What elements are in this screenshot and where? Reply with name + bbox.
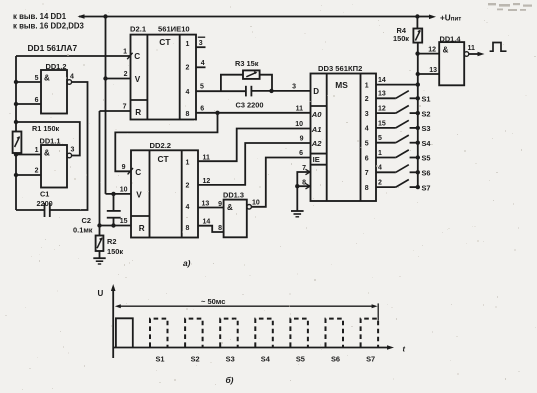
wire to switch S3 xyxy=(376,127,396,129)
gate DD1.2 xyxy=(41,70,67,114)
svg-text:V: V xyxy=(136,190,142,199)
svg-text:4: 4 xyxy=(70,74,74,81)
svg-text:14: 14 xyxy=(203,219,211,226)
svg-text:6: 6 xyxy=(200,105,204,112)
svg-text:6: 6 xyxy=(299,150,303,157)
output pulse symbol xyxy=(490,43,507,52)
svg-text:S3: S3 xyxy=(226,355,235,364)
wire pin12 xyxy=(418,53,440,55)
svg-text:2200: 2200 xyxy=(37,199,53,208)
svg-text:11: 11 xyxy=(296,105,304,112)
node S2 bus xyxy=(416,111,420,115)
node pin2 tap xyxy=(14,173,18,177)
switch S4 blade xyxy=(396,135,409,143)
svg-text:+Uпит: +Uпит xyxy=(440,13,461,22)
node R4 pin12 junction xyxy=(415,51,419,55)
counter DD2.1 xyxy=(131,35,197,120)
svg-text:8: 8 xyxy=(186,225,190,232)
counter DD2.2 xyxy=(131,150,198,237)
svg-text:R: R xyxy=(135,108,141,117)
svg-text:3: 3 xyxy=(199,40,203,47)
resistor R3 xyxy=(243,70,260,79)
wire to switch S7 xyxy=(376,186,396,188)
svg-text:S1: S1 xyxy=(422,95,431,104)
wire common bus xyxy=(417,54,419,188)
C input slash DD2.2 xyxy=(128,168,133,174)
svg-text:11: 11 xyxy=(203,154,211,161)
svg-text:&: & xyxy=(443,46,449,55)
wire C1 left xyxy=(16,209,44,211)
svg-text:A2: A2 xyxy=(311,139,322,148)
svg-text:150к: 150к xyxy=(107,247,123,256)
svg-text:S5: S5 xyxy=(296,355,305,364)
pulse S5 dashed xyxy=(290,319,308,347)
svg-text:11: 11 xyxy=(468,45,476,52)
wire to +Upit arrow xyxy=(417,16,429,18)
pulse S4 dashed xyxy=(255,319,272,347)
switch S7 blade xyxy=(396,180,409,188)
wire +U top rail xyxy=(79,16,417,18)
svg-text:1: 1 xyxy=(35,147,39,154)
node S3 bus xyxy=(416,126,420,130)
wire node-X rail xyxy=(15,153,17,210)
wire pin8 gnd xyxy=(297,185,310,187)
wire out1 to A1 xyxy=(198,129,311,162)
svg-text:2: 2 xyxy=(378,180,382,187)
svg-text:13: 13 xyxy=(202,201,210,208)
wire R4 bottom lead xyxy=(417,43,419,54)
capacitor C3 xyxy=(245,86,247,97)
pin8 arrow tick xyxy=(306,184,311,189)
svg-text:3: 3 xyxy=(365,111,369,118)
capacitor C2 xyxy=(113,194,115,211)
svg-text:~ 50мс: ~ 50мс xyxy=(201,297,225,306)
svg-text:S6: S6 xyxy=(331,355,340,364)
svg-text:9: 9 xyxy=(218,201,222,208)
t axis xyxy=(113,347,388,349)
resistor R2 xyxy=(99,226,101,236)
resistor R4 xyxy=(413,29,422,43)
pulse S2 dashed xyxy=(185,319,203,347)
wire out8 to DD1.3 xyxy=(198,226,224,232)
svg-text:2: 2 xyxy=(186,65,190,72)
svg-text:3: 3 xyxy=(292,83,296,90)
svg-text:7: 7 xyxy=(123,104,127,111)
svg-text:13: 13 xyxy=(378,91,386,98)
svg-text:C3 2200: C3 2200 xyxy=(236,101,264,110)
wire out2 to A2 xyxy=(198,143,311,185)
wire out8 pin6 to A0 xyxy=(196,112,311,114)
svg-text:C2: C2 xyxy=(82,216,91,225)
svg-text:V: V xyxy=(135,75,141,84)
svg-text:12: 12 xyxy=(378,106,386,113)
wire pin3 feedback loop xyxy=(16,122,80,156)
wire V pin10 xyxy=(106,193,132,195)
wire to switch S4 xyxy=(376,142,396,144)
wire to switch S6 xyxy=(376,171,396,173)
svg-text:D: D xyxy=(313,87,319,96)
svg-text:6: 6 xyxy=(365,155,369,162)
svg-text:DD2.2: DD2.2 xyxy=(150,141,172,150)
svg-text:C1: C1 xyxy=(40,190,49,199)
svg-text:2: 2 xyxy=(35,168,39,175)
wire out1 pin14 xyxy=(376,84,418,86)
node C2 top xyxy=(111,192,115,196)
out2 stub pin4 xyxy=(196,66,206,68)
svg-text:2: 2 xyxy=(124,71,128,78)
svg-text:4: 4 xyxy=(186,89,190,96)
node C2 bottom xyxy=(111,223,115,227)
svg-text:8: 8 xyxy=(186,111,190,118)
svg-text:3: 3 xyxy=(71,147,75,154)
wire output arrow xyxy=(469,53,479,55)
node S6 bus xyxy=(416,170,420,174)
node pin3 feedback tap xyxy=(14,120,18,124)
svg-text:б): б) xyxy=(226,375,234,385)
switch S2 blade xyxy=(396,106,409,114)
svg-text:S2: S2 xyxy=(191,355,200,364)
svg-text:10: 10 xyxy=(295,121,303,128)
node S4 bus xyxy=(416,141,420,145)
svg-text:DD1.3: DD1.3 xyxy=(223,191,244,200)
svg-text:0.1мк: 0.1мк xyxy=(73,226,93,235)
svg-text:4: 4 xyxy=(201,60,205,67)
node R2 tap xyxy=(97,223,101,227)
wire +U vertical xyxy=(105,17,107,194)
svg-text:S3: S3 xyxy=(422,124,431,133)
svg-text:C: C xyxy=(135,168,141,177)
svg-text:S1: S1 xyxy=(155,355,164,364)
pin7 arrow tick xyxy=(306,169,311,174)
gate DD1.4 xyxy=(439,42,464,85)
sync pulse solid xyxy=(116,318,133,347)
wire reset vertical xyxy=(99,111,101,226)
wire out4 to DD1.3 xyxy=(198,207,224,209)
node R4 top xyxy=(415,14,419,18)
capacitor C1 xyxy=(44,203,46,217)
switch S6 contact xyxy=(410,171,418,173)
ground R2 xyxy=(93,257,105,259)
node pin6 tap xyxy=(14,102,18,106)
svg-text:к выв. 14 DD1: к выв. 14 DD1 xyxy=(13,12,67,21)
wire to switch S1 xyxy=(376,97,396,99)
svg-text:S7: S7 xyxy=(422,183,431,192)
svg-text:к выв. 16 DD2,DD3: к выв. 16 DD2,DD3 xyxy=(13,22,85,31)
switch S5 contact xyxy=(410,157,418,159)
out1 stub pin3 xyxy=(196,46,206,48)
svg-text:9: 9 xyxy=(122,164,126,171)
wire cascade to DD2.2 C xyxy=(115,113,217,172)
scan artifact marks xyxy=(488,3,532,11)
switch S1 blade xyxy=(396,91,409,99)
svg-text:15: 15 xyxy=(378,120,386,127)
svg-text:12: 12 xyxy=(428,46,436,53)
svg-text:5: 5 xyxy=(35,75,39,82)
node cascade tap xyxy=(215,111,219,115)
wire pin2 xyxy=(16,174,41,176)
switch S3 blade xyxy=(396,120,409,128)
U axis xyxy=(112,287,114,358)
node S7 bus xyxy=(416,185,420,189)
wire node-Y rail xyxy=(15,56,17,132)
svg-text:DD1 561ЛА7: DD1 561ЛА7 xyxy=(28,43,78,53)
switch S1 contact xyxy=(410,97,418,99)
switch S4 contact xyxy=(410,142,418,144)
svg-text:1: 1 xyxy=(378,150,382,157)
wire V pin2 xyxy=(106,78,131,80)
wire node-Y top to DD2.1 C xyxy=(16,55,131,57)
svg-text:&: & xyxy=(44,74,50,83)
svg-text:8: 8 xyxy=(218,225,222,232)
wire to ground xyxy=(296,186,298,211)
svg-text:&: & xyxy=(227,203,233,212)
svg-text:2: 2 xyxy=(186,183,190,190)
wire pin5 xyxy=(16,81,41,83)
svg-text:S7: S7 xyxy=(366,355,375,364)
svg-text:150к: 150к xyxy=(393,34,409,43)
svg-text:10: 10 xyxy=(252,199,260,206)
svg-text:10: 10 xyxy=(120,186,128,193)
svg-text:C: C xyxy=(134,52,140,61)
svg-text:D2.1: D2.1 xyxy=(130,25,147,34)
svg-text:IE: IE xyxy=(313,155,320,164)
svg-text:A1: A1 xyxy=(311,125,322,134)
wire DD1.3 out to IE xyxy=(251,158,310,207)
node C3 R3 D junction xyxy=(269,89,273,93)
wire R3 right lead xyxy=(260,75,272,91)
svg-text:R3 15к: R3 15к xyxy=(235,59,259,68)
pulse S6 dashed xyxy=(326,319,344,347)
svg-text:CT: CT xyxy=(159,37,171,47)
pin 11 output circle xyxy=(464,52,469,57)
gate DD1.1 xyxy=(41,145,67,188)
svg-text:S4: S4 xyxy=(261,355,271,364)
svg-text:S6: S6 xyxy=(422,169,431,178)
wire pin13 xyxy=(418,73,439,75)
svg-text:CT: CT xyxy=(158,154,170,164)
node pin5 tap xyxy=(14,80,18,84)
svg-text:4: 4 xyxy=(186,204,190,211)
wire pin7 gnd xyxy=(297,172,310,186)
svg-text:R1 150к: R1 150к xyxy=(32,124,60,133)
svg-text:15: 15 xyxy=(120,218,128,225)
svg-text:1: 1 xyxy=(365,82,369,89)
svg-text:14: 14 xyxy=(378,77,386,84)
svg-text:561ИЕ10: 561ИЕ10 xyxy=(158,25,190,34)
switch S2 contact xyxy=(410,112,418,114)
resistor R1 xyxy=(13,132,22,154)
svg-text:S4: S4 xyxy=(422,139,432,148)
wire pin6 xyxy=(16,103,41,105)
node pin13 tap xyxy=(416,72,420,76)
svg-text:9: 9 xyxy=(300,136,304,143)
svg-text:5: 5 xyxy=(200,84,204,91)
svg-text:4: 4 xyxy=(365,126,369,133)
node pin1 tap xyxy=(14,152,18,156)
svg-text:6: 6 xyxy=(35,97,39,104)
node power tap xyxy=(103,14,107,18)
wire to switch S2 xyxy=(376,112,396,114)
wire pin1 xyxy=(16,154,41,156)
node pin14 bus xyxy=(416,82,420,86)
svg-text:а): а) xyxy=(183,258,191,268)
wire R3 branch up xyxy=(221,75,243,92)
wire R pin15 xyxy=(100,225,132,227)
svg-text:13: 13 xyxy=(429,67,437,74)
svg-text:U: U xyxy=(98,289,104,298)
pulse S7 dashed xyxy=(361,319,379,347)
dimension line 50ms xyxy=(118,305,375,307)
svg-text:MS: MS xyxy=(335,80,348,90)
wire C3 to D input xyxy=(252,90,311,92)
svg-text:7: 7 xyxy=(365,170,369,177)
pulse S3 dashed xyxy=(220,319,238,347)
gate DD1.3 xyxy=(224,200,247,238)
node gnd junction xyxy=(295,184,299,188)
svg-text:12: 12 xyxy=(203,178,211,185)
wire R4 top lead xyxy=(416,17,418,29)
svg-text:5: 5 xyxy=(378,135,382,142)
svg-text:5: 5 xyxy=(365,141,369,148)
svg-text:R2: R2 xyxy=(107,237,116,246)
node S5 bus xyxy=(416,155,420,159)
svg-text:1: 1 xyxy=(123,49,127,56)
wire C1 right to DD1.2 out xyxy=(50,82,87,210)
svg-text:DD3 561КП2: DD3 561КП2 xyxy=(318,64,362,73)
pin 3 output circle xyxy=(67,153,72,158)
C input slash DD2.1 xyxy=(127,53,132,59)
svg-text:2: 2 xyxy=(365,96,369,103)
svg-text:4: 4 xyxy=(378,165,382,172)
multiplexer DD3 xyxy=(311,74,377,202)
switch S3 contact xyxy=(410,127,418,129)
node S1 bus xyxy=(416,96,420,100)
svg-text:1: 1 xyxy=(186,41,190,48)
switch S5 blade xyxy=(396,150,409,158)
switch S7 contact xyxy=(410,186,418,188)
wire to switch S5 xyxy=(376,157,396,159)
svg-text:1: 1 xyxy=(186,160,190,167)
wire out4 pin5 xyxy=(196,90,246,92)
node V2 tap xyxy=(103,76,107,80)
svg-text:S5: S5 xyxy=(422,154,431,163)
pulse S1 dashed xyxy=(150,319,168,347)
svg-text:&: & xyxy=(44,149,50,158)
pin 4 output circle xyxy=(67,80,72,85)
svg-text:A0: A0 xyxy=(311,110,322,119)
wire R pin7 xyxy=(100,110,131,112)
svg-text:8: 8 xyxy=(365,185,369,192)
switch S6 blade xyxy=(396,165,409,173)
svg-text:S2: S2 xyxy=(422,109,431,118)
ground DD3 xyxy=(291,210,304,212)
pin 10 output circle xyxy=(247,205,252,210)
